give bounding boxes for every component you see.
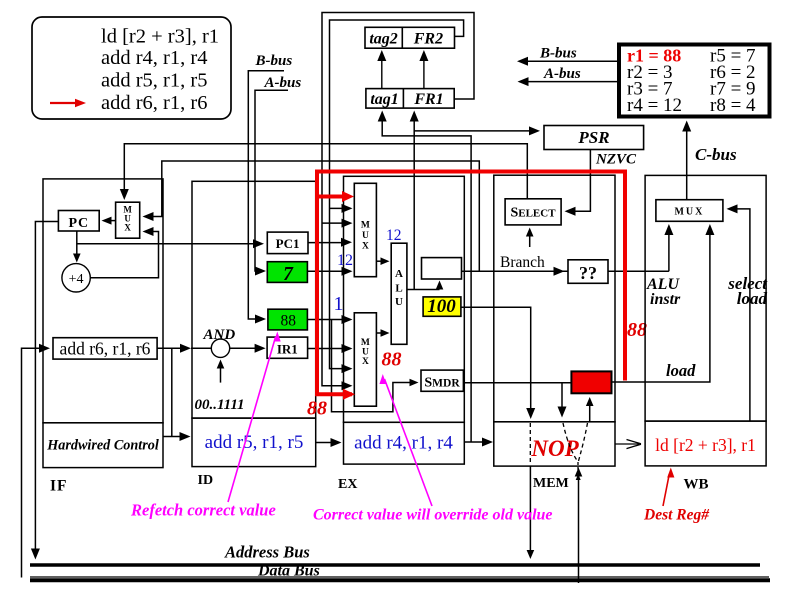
MEM stage box <box>494 175 615 422</box>
Data Bus line <box>30 578 770 582</box>
svg-text:EX: EX <box>338 477 357 492</box>
svg-text:add r5, r1, r5: add r5, r1, r5 <box>101 70 207 92</box>
svg-text:ld [r2 + r3], r1: ld [r2 + r3], r1 <box>655 435 756 455</box>
wire MEM address to address bus <box>529 466 531 552</box>
svg-text:AND: AND <box>203 327 236 343</box>
wire hardwired control to ID latch <box>163 436 185 438</box>
wire riser to WB mux (ALU instr) <box>668 228 670 271</box>
svg-text:1: 1 <box>334 293 344 315</box>
wire mask into AND <box>220 366 222 383</box>
svg-text:NOP: NOP <box>530 436 579 461</box>
green 7 latch (A value) <box>267 262 307 283</box>
svg-text:r4 = 12: r4 = 12 <box>627 95 682 116</box>
svg-text:U: U <box>362 231 369 241</box>
svg-text:Correct value will override ol: Correct value will override old value <box>313 507 553 524</box>
register tag2/FR2 <box>365 27 455 48</box>
refetch annotation arrow <box>228 337 276 502</box>
wire ALU flags to PSR <box>414 130 532 132</box>
svg-text:Branch: Branch <box>500 254 545 271</box>
wire upper mux to ALU <box>376 260 385 262</box>
wire green88 to EX lower mux <box>307 319 347 321</box>
svg-text:add r4, r1, r4: add r4, r1, r4 <box>354 433 453 454</box>
EX lower mux <box>354 313 376 406</box>
IF stage box <box>43 179 163 423</box>
svg-text:U: U <box>362 348 369 358</box>
wire NZVC from PSR to SELECT <box>569 150 590 212</box>
svg-text:7: 7 <box>283 264 294 285</box>
svg-text:add r5, r1, r5: add r5, r1, r5 <box>205 432 304 453</box>
wire tag1 to tag2 <box>381 58 383 89</box>
wire green7 to EX upper mux <box>307 270 347 272</box>
wire load value from red latch to WB mux <box>612 228 710 382</box>
red forwarding path <box>317 172 625 395</box>
wire EX latch to MEM latch <box>464 441 488 443</box>
svg-text:PC1: PC1 <box>276 236 300 251</box>
svg-text:X: X <box>362 242 369 252</box>
dashed squash bubble <box>563 423 578 461</box>
svg-text:88: 88 <box>281 313 297 330</box>
svg-text:add r6, r1, r6: add r6, r1, r6 <box>60 339 151 359</box>
wire into MAR white box <box>439 285 441 290</box>
dashed address continuation <box>529 423 531 465</box>
wire data bus to instruction box <box>22 348 44 577</box>
wire memory address to MEM latch <box>461 307 531 414</box>
svg-text:load: load <box>666 361 696 380</box>
wire FR1 to FR2 <box>423 58 425 89</box>
C-bus wire to register file <box>686 127 688 200</box>
svg-text:tag2: tag2 <box>369 31 397 48</box>
wire instruction down to ID latch <box>171 348 173 436</box>
svg-text:A-bus: A-bus <box>543 66 581 82</box>
svg-text:Hardwired Control: Hardwired Control <box>46 438 159 454</box>
EX stage box <box>344 176 465 422</box>
svg-text:load: load <box>737 289 768 308</box>
svg-text:add r6, r1, r6: add r6, r1, r6 <box>101 92 207 114</box>
A-bus wire out of register file <box>525 81 619 83</box>
wire PC to address bus <box>35 222 58 552</box>
svg-text:+4: +4 <box>69 272 84 287</box>
svg-text:FR1: FR1 <box>413 91 443 108</box>
svg-text:88: 88 <box>627 319 647 341</box>
B-bus wire to green 88 latch <box>248 71 284 319</box>
override annotation arrow <box>385 379 433 506</box>
SMDR box <box>421 370 463 391</box>
IF hardwired control box <box>43 423 163 468</box>
svg-text:PC: PC <box>68 216 89 231</box>
svg-text:ld [r2 + r3], r1: ld [r2 + r3], r1 <box>101 26 219 48</box>
svg-text:Dest Reg#: Dest Reg# <box>643 507 710 524</box>
svg-text:add r4, r1, r4: add r4, r1, r4 <box>101 47 207 69</box>
PSR box <box>544 126 644 150</box>
green 88 latch (B value) <box>268 309 308 330</box>
svg-text:SMDR: SMDR <box>424 376 460 391</box>
wire AND to IR1 <box>230 347 261 349</box>
B-bus wire out of register file <box>525 60 619 62</box>
svg-text:U: U <box>395 296 403 308</box>
svg-text:X: X <box>362 357 369 367</box>
svg-text:88: 88 <box>307 398 327 420</box>
yellow 100 value box <box>423 297 461 316</box>
wire instruction to decode AND <box>157 347 186 349</box>
EX instruction latch box <box>344 422 465 464</box>
SELECT box <box>505 199 561 225</box>
wire IR1 to EX lower mux <box>308 348 347 350</box>
svg-text:88: 88 <box>382 349 402 371</box>
svg-text:instr: instr <box>650 291 681 308</box>
?? branch decision box <box>568 260 608 284</box>
Dest Reg# red arrow <box>663 474 669 506</box>
svg-text:tag1: tag1 <box>370 91 398 108</box>
wire SMDR out to MEM red latch <box>463 382 571 384</box>
svg-text:MUX: MUX <box>674 207 704 218</box>
svg-text:IR1: IR1 <box>277 342 298 357</box>
wire MAR out to ??, WB mux <box>462 270 669 272</box>
IF mux <box>116 202 140 238</box>
PC1 latch <box>267 232 308 254</box>
A-bus wire to green 7 latch <box>255 90 288 271</box>
svg-text:Address Bus: Address Bus <box>224 543 310 562</box>
svg-text:M: M <box>361 221 370 231</box>
wire MEM data to/from data bus <box>578 472 580 583</box>
wire ALU out to MAR latch and up to FR1/PSR <box>407 289 440 291</box>
ID instruction latch box <box>192 418 316 467</box>
Address Bus line <box>30 563 760 566</box>
Data Bus underline <box>30 576 769 578</box>
svg-text:r8 = 4: r8 = 4 <box>710 95 756 116</box>
svg-text:A: A <box>395 268 403 280</box>
IR1 latch <box>267 337 308 358</box>
svg-text:NZVC: NZVC <box>595 152 637 168</box>
wire up into red latch <box>589 403 591 422</box>
svg-text:B-bus: B-bus <box>539 46 577 62</box>
+4 adder <box>62 264 90 292</box>
WB mux <box>656 200 723 222</box>
PC box <box>58 211 99 232</box>
wire branch of inner loop into upper MUX <box>330 207 348 209</box>
svg-text:00..1111: 00..1111 <box>195 397 245 413</box>
wire branch target address back to IF mux <box>147 161 479 271</box>
wire branch signal into SELECT <box>529 233 531 247</box>
WB stage box <box>645 175 766 421</box>
register tag1/FR1 <box>366 89 454 109</box>
IF fetched instruction box add r6 <box>53 338 157 359</box>
wire PC to +4 <box>76 231 78 256</box>
svg-text:M: M <box>361 338 370 348</box>
WB instruction latch box <box>645 421 766 466</box>
ID stage box <box>192 181 316 418</box>
wire SELECT to IF mux (branch control) <box>124 144 527 199</box>
svg-text:??: ?? <box>579 263 597 283</box>
wire lower mux to ALU <box>376 332 385 334</box>
MAR white box <box>422 258 462 279</box>
wire select from WB instr latch to mux <box>731 209 750 421</box>
instruction legend box <box>32 17 231 119</box>
register file <box>619 45 770 117</box>
EX upper mux <box>354 183 376 276</box>
svg-text:B-bus: B-bus <box>255 53 293 69</box>
wire FR loop outer (FR1 feedback down to EX muxes) <box>322 13 474 386</box>
svg-text:A-bus: A-bus <box>264 75 302 91</box>
ALU box <box>391 243 407 344</box>
wire branch down into MEM latch <box>561 383 563 411</box>
wire instr-latch to tag1 <box>382 119 471 442</box>
svg-text:12: 12 <box>337 252 353 269</box>
wire FR loop inner (FR2 feedback down to EX muxes) <box>330 20 464 369</box>
open arrow MEM latch to WB latch <box>615 443 639 445</box>
svg-text:WB: WB <box>684 477 709 493</box>
svg-text:PSR: PSR <box>577 128 609 147</box>
MEM instruction latch box <box>494 422 615 466</box>
wire PC1 to EX upper mux <box>308 242 347 244</box>
svg-text:C-bus: C-bus <box>695 145 737 164</box>
wire +4 back to IF mux <box>90 232 158 278</box>
svg-text:Refetch correct value: Refetch correct value <box>130 501 276 520</box>
svg-text:X: X <box>124 223 131 233</box>
svg-text:SELECT: SELECT <box>510 206 556 221</box>
wire IF mux to PC <box>105 220 116 222</box>
svg-text:IF: IF <box>50 478 68 495</box>
red forwarded value latch <box>571 371 611 393</box>
svg-text:MEM: MEM <box>533 476 569 491</box>
svg-text:L: L <box>395 283 402 295</box>
wire branch of outer loop into upper MUX <box>322 222 347 224</box>
wire B value to SMDR <box>332 320 415 412</box>
wire ID latch to EX latch <box>316 442 336 444</box>
svg-text:100: 100 <box>427 296 456 317</box>
AND decode circle <box>211 339 229 357</box>
svg-text:12: 12 <box>386 227 402 244</box>
svg-text:FR2: FR2 <box>413 31 443 48</box>
wire PC to PC1 latch <box>77 243 258 245</box>
current instruction red arrow <box>50 102 76 104</box>
svg-text:ID: ID <box>198 473 214 488</box>
